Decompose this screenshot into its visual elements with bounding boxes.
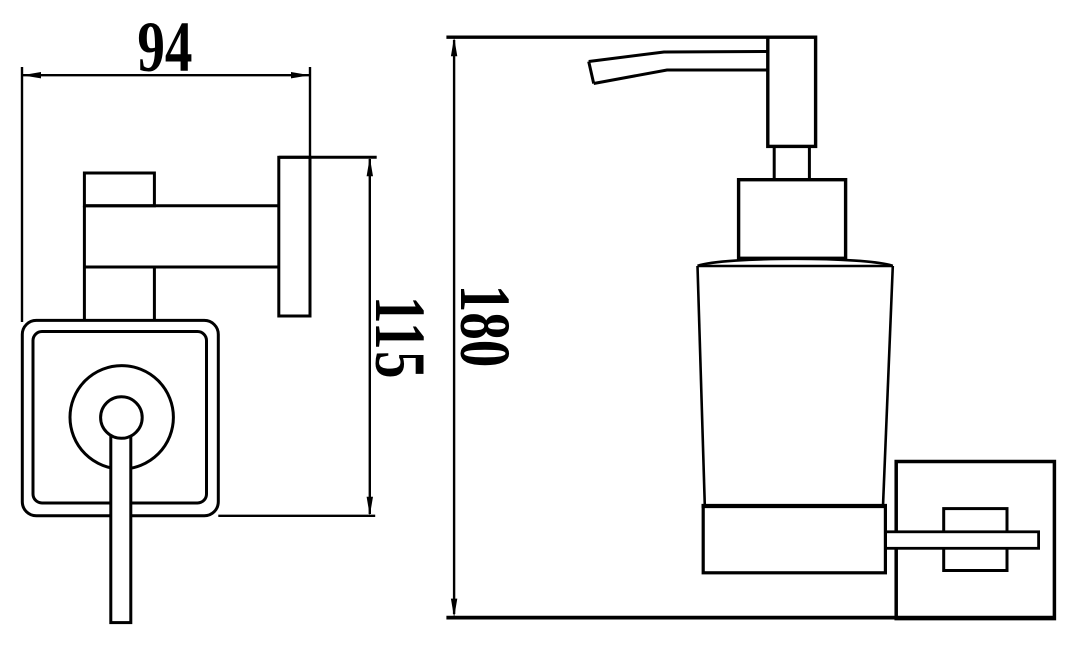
- svg-text:180: 180: [445, 285, 525, 368]
- svg-text:94: 94: [137, 7, 192, 87]
- svg-text:115: 115: [360, 296, 440, 380]
